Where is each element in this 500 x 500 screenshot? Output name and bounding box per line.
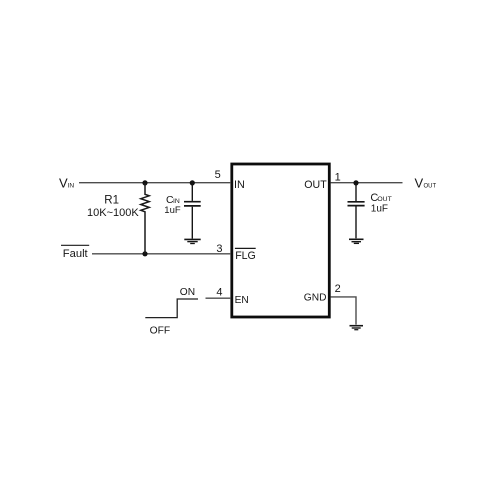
svg-text:10K~100K: 10K~100K — [87, 207, 139, 219]
FLG pin label with overline — [235, 248, 256, 262]
svg-text:FLG: FLG — [235, 250, 256, 262]
ground for COUT — [349, 239, 364, 243]
wire to pin 4 (EN) — [206, 297, 232, 299]
VOUT label — [415, 175, 437, 190]
capacitor COUT — [348, 183, 365, 238]
svg-text:2: 2 — [335, 283, 341, 295]
capacitor CIN label — [164, 194, 181, 216]
wire VIN to pin 5 (IN) — [79, 182, 231, 184]
svg-text:EN: EN — [235, 295, 249, 306]
svg-text:IN: IN — [173, 198, 180, 205]
svg-text:IN: IN — [234, 179, 245, 191]
ground for GND pin — [350, 326, 364, 330]
svg-text:OFF: OFF — [150, 325, 171, 336]
node C junction dot Fault/R1 — [142, 251, 147, 256]
EN waveform ON/OFF — [145, 299, 198, 318]
node D junction dot OUT/COUT — [353, 180, 358, 185]
ground for CIN — [184, 239, 200, 243]
wire Fault to pin 3 (FLG) — [92, 253, 231, 255]
node B junction dot VIN/CIN — [190, 180, 195, 185]
svg-text:3: 3 — [216, 243, 222, 255]
svg-text:4: 4 — [216, 287, 222, 299]
svg-text:V: V — [415, 175, 424, 190]
svg-text:ON: ON — [180, 287, 195, 298]
svg-text:GND: GND — [304, 293, 327, 304]
svg-text:Fault: Fault — [63, 248, 89, 260]
svg-text:1uF: 1uF — [164, 205, 181, 216]
IC U1 body — [232, 164, 329, 317]
svg-text:OUT: OUT — [304, 179, 327, 191]
VIN label — [59, 175, 74, 190]
capacitor COUT label — [370, 192, 391, 214]
capacitor CIN — [184, 183, 201, 239]
node A junction dot VIN/R1 — [142, 180, 147, 185]
svg-text:1uF: 1uF — [371, 204, 388, 215]
svg-text:1: 1 — [335, 172, 341, 184]
svg-text:OUT: OUT — [377, 196, 391, 203]
Fault label with overline — [61, 245, 89, 260]
svg-text:R1: R1 — [104, 195, 119, 207]
resistor R1 — [141, 183, 149, 254]
svg-text:5: 5 — [215, 169, 221, 181]
wire pin 2 (GND) to ground — [331, 297, 357, 325]
wire pin 1 (OUT) to VOUT — [331, 182, 403, 184]
svg-text:OUT: OUT — [424, 183, 437, 189]
svg-text:IN: IN — [68, 182, 75, 189]
